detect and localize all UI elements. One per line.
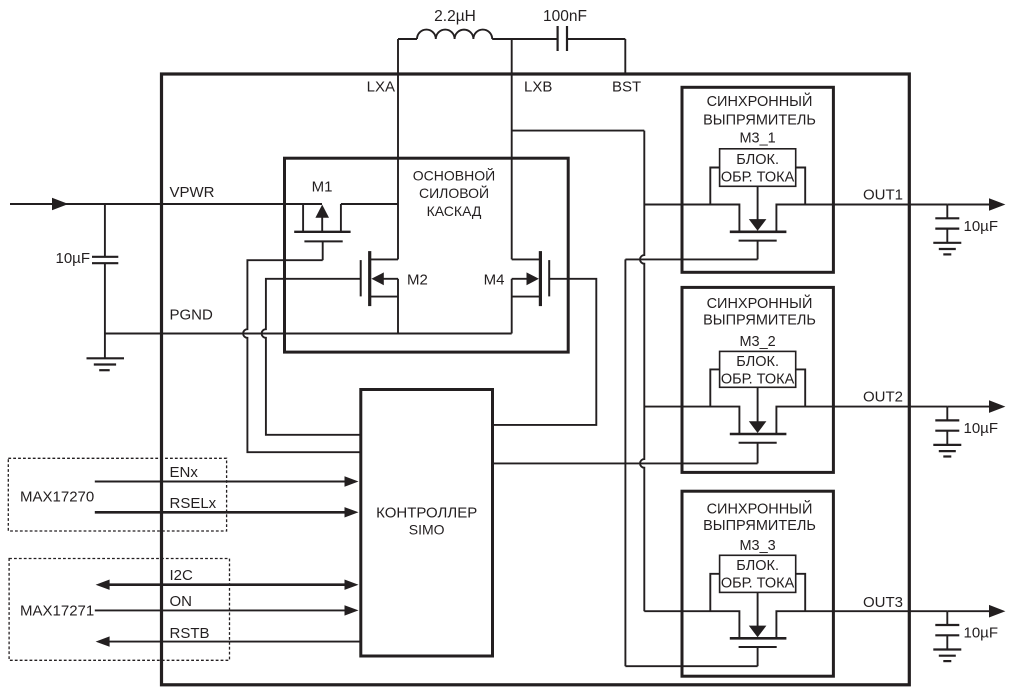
arrow OUT2 (989, 400, 1005, 413)
wire M3_3 source to OUT3 (776, 611, 947, 637)
svg-text:M1: M1 (312, 179, 333, 196)
capacitor C BST 100nF (558, 26, 567, 51)
wire PGND row (105, 333, 512, 335)
controller box SIMO (361, 390, 493, 657)
wire block1 left sense (710, 168, 719, 205)
svg-text:SIMO: SIMO (409, 522, 445, 538)
wire LXB vertical (511, 39, 513, 259)
wire block2 left sense (710, 369, 719, 406)
svg-text:СИНХРОННЫЙ: СИНХРОННЫЙ (707, 294, 813, 312)
wire block2 gate drive with arrow (757, 387, 759, 421)
svg-text:I2C: I2C (170, 567, 194, 584)
arrow VPWR input (52, 198, 68, 211)
wire M3_1 gate line to bus (625, 258, 757, 260)
svg-text:ОБР. ТОКА: ОБР. ТОКА (721, 169, 795, 185)
wire M4 gate to controller (493, 279, 597, 425)
svg-text:КОНТРОЛЛЕР: КОНТРОЛЛЕР (376, 505, 477, 522)
label controller title (376, 505, 477, 538)
wire M1 gate to controller (hop over PGND) (243, 260, 361, 452)
transistor M3_1 (730, 232, 787, 260)
svg-text:VPWR: VPWR (170, 184, 215, 201)
rectifier 2 box (682, 287, 833, 472)
wire OUT2 to arrow (947, 406, 992, 408)
svg-text:ВЫПРЯМИТЕЛЬ: ВЫПРЯМИТЕЛЬ (703, 518, 816, 534)
svg-text:10µF: 10µF (56, 250, 91, 267)
ground GND input (87, 358, 125, 370)
svg-text:СИНХРОННЫЙ: СИНХРОННЫЙ (707, 500, 813, 518)
ground GND OUT1 (933, 243, 961, 255)
wire block3 gate drive with arrow (757, 592, 759, 626)
svg-text:10µF: 10µF (964, 420, 999, 437)
svg-text:2.2µH: 2.2µH (434, 8, 476, 25)
arrow M3_1 gate drive (749, 219, 767, 231)
inductor L1 2.2uH (417, 30, 492, 39)
wire RSELx (bold) (95, 511, 346, 514)
transistor M1 (294, 204, 398, 260)
svg-text:10µF: 10µF (964, 625, 999, 642)
svg-text:ОБР. ТОКА: ОБР. ТОКА (721, 576, 795, 592)
wire block3 left sense (710, 574, 719, 611)
reverse current block box 3 (720, 555, 796, 592)
wire RSTB (108, 641, 361, 643)
arrow OUT3 (989, 605, 1005, 618)
rectifier 3 box (682, 491, 833, 676)
svg-text:100nF: 100nF (543, 8, 587, 25)
transistor M3_3 (730, 638, 787, 666)
power stage box (285, 158, 569, 352)
svg-text:M3_3: M3_3 (739, 538, 775, 554)
wire LX to M3_1 drain (644, 205, 739, 232)
transistor M2 (361, 251, 398, 333)
svg-text:ENx: ENx (170, 464, 199, 481)
label rectifier 2 title (703, 294, 816, 328)
arrow ON (345, 605, 359, 615)
arrow RSTB left (96, 636, 110, 646)
wire LX bus horizontal from LXB (512, 130, 645, 132)
wire block1 right sense (796, 168, 806, 205)
wire M3_3 gate line to bus (625, 665, 757, 667)
ground GND OUT2 (933, 445, 961, 457)
wire VPWR input (10, 203, 322, 205)
arrow OUT1 (989, 198, 1005, 211)
wire LX to M3_2 drain (644, 407, 739, 434)
arrow I2C right (345, 580, 359, 590)
svg-text:ОБР. ТОКА: ОБР. ТОКА (721, 371, 795, 387)
wire block2 right sense (796, 369, 806, 406)
wire LX to M3_3 drain (644, 611, 739, 637)
capacitor COUT3 10uF (935, 611, 959, 649)
wire I2C (bold, double arrow) (108, 583, 346, 586)
svg-text:ВЫПРЯМИТЕЛЬ: ВЫПРЯМИТЕЛЬ (703, 312, 816, 328)
svg-text:OUT2: OUT2 (863, 389, 903, 406)
wire block1 gate drive with arrow (757, 186, 759, 219)
svg-text:ОСНОВНОЙ: ОСНОВНОЙ (413, 167, 495, 184)
svg-text:MAX17271: MAX17271 (20, 603, 94, 620)
wire OUT1 to arrow (947, 204, 992, 206)
label reverse current block 3 (721, 558, 795, 592)
wire rail between inductor and C BST (492, 38, 556, 40)
wire M3_1 source to OUT1 (776, 205, 947, 232)
svg-text:OUT3: OUT3 (863, 594, 903, 611)
wire top rail left (398, 38, 417, 40)
arrow RSELx (345, 507, 359, 517)
svg-text:BST: BST (612, 79, 641, 96)
wire OUT3 to arrow (947, 610, 992, 612)
svg-text:MAX17270: MAX17270 (20, 489, 94, 506)
svg-text:БЛОК.: БЛОК. (736, 558, 779, 574)
label rectifier 1 title (703, 92, 816, 128)
label rectifier 3 title (703, 500, 816, 534)
svg-text:M2: M2 (407, 272, 428, 289)
arrow I2C left (96, 580, 110, 590)
svg-text:БЛОК.: БЛОК. (736, 152, 779, 168)
wire ENx (95, 481, 346, 483)
rectifier 1 box (682, 87, 833, 272)
IC outer box (MAX17270/MAX17271) (162, 74, 910, 685)
wire BST stub (624, 39, 626, 74)
wire M3_2 source to OUT2 (776, 407, 947, 434)
label reverse current block 1 (721, 152, 795, 186)
transistor M3_2 (730, 434, 787, 463)
label power stage title (413, 167, 495, 220)
svg-text:LXB: LXB (524, 79, 552, 96)
wire rail cap to BST (568, 38, 625, 40)
svg-text:БЛОК.: БЛОК. (736, 354, 779, 370)
capacitor COUT2 10uF (935, 407, 959, 445)
svg-text:PGND: PGND (170, 307, 214, 324)
capacitor CIN 10uF (92, 204, 118, 358)
svg-text:LXA: LXA (367, 79, 395, 96)
svg-text:10µF: 10µF (964, 218, 999, 235)
wire LXA vertical (397, 39, 399, 259)
arrow ENx (345, 476, 359, 486)
reverse current block box 1 (720, 149, 796, 187)
wire ON (95, 609, 346, 611)
wire M2 gate to controller (hop over PGND) (262, 279, 361, 435)
svg-text:M4: M4 (484, 272, 505, 289)
svg-text:ON: ON (170, 593, 193, 610)
svg-text:ВЫПРЯМИТЕЛЬ: ВЫПРЯМИТЕЛЬ (703, 112, 816, 128)
dashed box MAX17271 (9, 559, 229, 661)
svg-text:СИНХРОННЫЙ: СИНХРОННЫЙ (707, 92, 813, 110)
wire rectifier gate bus vertical (624, 259, 626, 666)
reverse current block box 2 (720, 351, 796, 387)
svg-text:M3_2: M3_2 (739, 334, 775, 350)
arrow M3_3 gate drive (749, 626, 767, 638)
svg-text:КАСКАД: КАСКАД (427, 203, 482, 219)
svg-text:M3_1: M3_1 (739, 130, 775, 146)
label reverse current block 2 (721, 354, 795, 387)
svg-text:RSELx: RSELx (170, 495, 217, 512)
wire rectifier gate bus horizontal (493, 462, 758, 464)
svg-text:RSTB: RSTB (170, 625, 210, 642)
capacitor COUT1 10uF (935, 205, 959, 243)
arrow M3_2 gate drive (749, 421, 767, 433)
svg-text:OUT1: OUT1 (863, 187, 903, 204)
wire block3 right sense (796, 574, 806, 611)
ground GND OUT3 (933, 650, 961, 662)
svg-text:СИЛОВОЙ: СИЛОВОЙ (419, 184, 489, 201)
transistor M4 (512, 251, 550, 333)
wire LX bus vertical (with hops over rectifier gate lines) (640, 131, 644, 612)
dashed box MAX17270 (8, 458, 226, 531)
